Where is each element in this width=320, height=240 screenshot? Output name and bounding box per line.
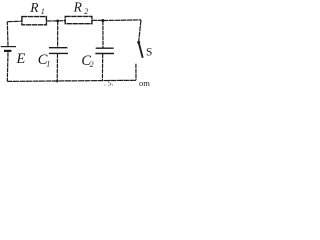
svg-text:E: E (16, 51, 26, 67)
capacitor C1 bottom plate (49, 52, 68, 54)
wire battery upper lead to top-left corner (6, 22, 9, 46)
node C1-bottom junction dot (56, 80, 58, 82)
switch S pivot dot (137, 41, 140, 44)
capacitor C2 top lead (102, 21, 104, 48)
resistor R2 (65, 16, 92, 23)
capacitor C1 top plate (49, 47, 68, 49)
wire right vertical down to switch (139, 20, 141, 42)
capacitor C1 top lead (57, 21, 59, 47)
wire top-left segment (7, 20, 22, 23)
wire node A to R2 (58, 20, 65, 22)
svg-text:2: 2 (90, 60, 94, 69)
wire R1 to node A (46, 20, 57, 22)
battery E long plate (1, 46, 16, 48)
node B junction dot (101, 19, 104, 22)
svg-text:1: 1 (46, 60, 50, 69)
capacitor C2 top plate (96, 47, 114, 49)
wire left vertical lower (battery to bottom) (6, 52, 9, 81)
wire node B to top-right corner (103, 19, 141, 22)
svg-text:2: 2 (84, 7, 88, 16)
capacitor C1 bottom lead (56, 53, 58, 81)
svg-text:R: R (73, 0, 83, 15)
capacitor C2 bottom plate (95, 53, 114, 55)
resistor R1 (22, 17, 47, 25)
svg-text:R: R (29, 0, 39, 15)
battery E short plate (4, 50, 11, 52)
node A junction dot (56, 20, 59, 23)
wire R2 to node B (92, 19, 103, 21)
wire bottom (7, 80, 136, 81)
wire switch lower stub (135, 64, 137, 81)
capacitor C2 bottom lead (101, 54, 103, 81)
svg-text:om: om (139, 78, 150, 88)
svg-text:. 5.: . 5. (104, 79, 114, 88)
switch S blade (139, 43, 143, 57)
svg-text:S: S (146, 47, 152, 59)
svg-text:1: 1 (41, 7, 45, 16)
